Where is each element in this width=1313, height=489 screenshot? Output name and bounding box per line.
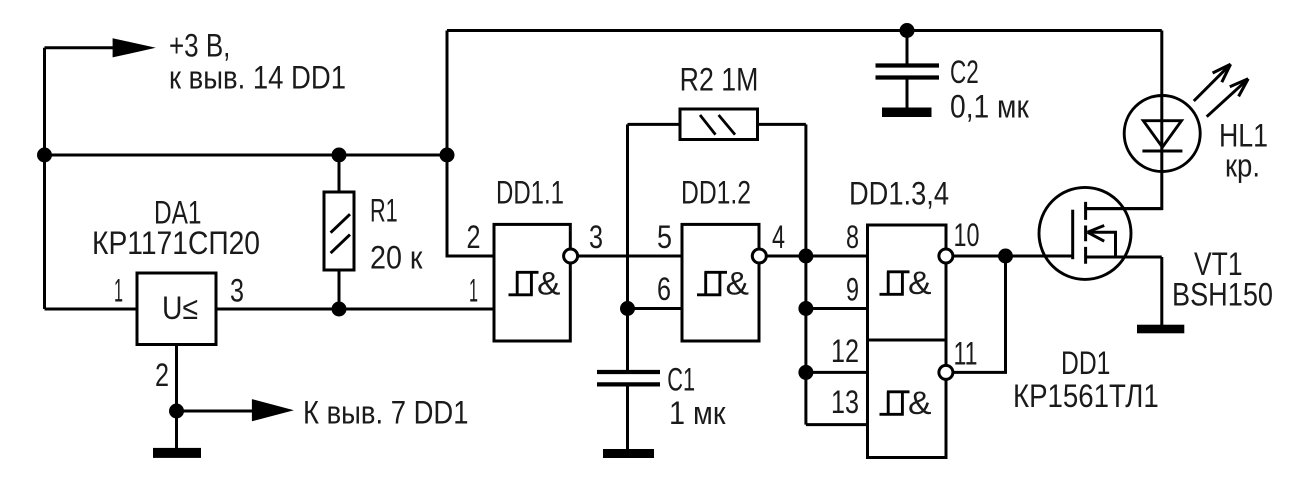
svg-text:кр.: кр. — [1225, 148, 1260, 184]
power arrow +3 V — [113, 38, 156, 57]
ground under C1 — [603, 449, 654, 458]
wire to K vyv.7 arrow — [177, 410, 256, 413]
svg-text:2: 2 — [155, 357, 169, 393]
node junction at 627.5,308.5 — [620, 301, 635, 316]
wire DA1 pin 3 to DD1.1 pin 1 — [216, 308, 494, 311]
svg-text:к выв. 14 DD1: к выв. 14 DD1 — [169, 60, 346, 96]
inverter bubble DD1.4 output — [939, 365, 953, 379]
svg-text:DD1.3,4: DD1.3,4 — [849, 176, 949, 212]
wire +3V horizontal to power arrow — [45, 46, 117, 49]
svg-text:1: 1 — [114, 273, 123, 309]
resistor R1 body — [338, 155, 341, 309]
node junction at 805.9,256 — [798, 249, 813, 264]
svg-text:20 к: 20 к — [370, 239, 423, 275]
svg-text:2: 2 — [467, 219, 481, 255]
svg-text:КР1561ТЛ1: КР1561ТЛ1 — [1013, 378, 1159, 414]
resistor R2 body — [680, 109, 758, 140]
node junction at 1005.5,256 — [998, 249, 1013, 264]
svg-text:R2 1M: R2 1M — [680, 62, 759, 98]
gate DD1.2 — [682, 224, 759, 341]
svg-text:8: 8 — [846, 219, 859, 255]
svg-text:BSH150: BSH150 — [1172, 276, 1273, 312]
svg-text:11: 11 — [954, 336, 978, 372]
svg-text:3: 3 — [230, 273, 244, 309]
svg-text:9: 9 — [846, 272, 859, 308]
transistor VT1 MOSFET — [1039, 187, 1131, 279]
node junction at 339,155 (R1 top) — [332, 148, 347, 163]
wire vertical x=447 from top rail to DD1.1 pin 2 — [447, 31, 494, 257]
svg-text:12: 12 — [831, 333, 859, 369]
ground under C2 — [882, 108, 932, 118]
arrow K vyv. 7 DD1 — [252, 399, 294, 421]
node junction at 44.5,155 — [37, 148, 52, 163]
wire feedback bus vertical x=805.9 — [804, 124, 807, 424]
IC DA1 voltage detector box — [137, 273, 216, 345]
wire LED branch vertical x=1161.8 — [1086, 31, 1162, 209]
svg-text:10: 10 — [954, 217, 980, 253]
svg-text:К выв. 7 DD1: К выв. 7 DD1 — [303, 394, 469, 430]
wire DD1.2 pin 6 from C1 node — [628, 307, 683, 310]
svg-text:5: 5 — [657, 219, 672, 255]
wire R2 left — [628, 123, 681, 126]
capacitor C2 — [906, 31, 909, 64]
svg-text:1: 1 — [469, 273, 478, 309]
svg-text:C2: C2 — [950, 54, 979, 90]
svg-text:U≤: U≤ — [162, 290, 198, 326]
svg-text:1 мк: 1 мк — [669, 395, 726, 431]
gate DD1.1 — [494, 224, 570, 341]
svg-text:&: & — [726, 266, 750, 302]
svg-text:DD1.1: DD1.1 — [496, 174, 564, 210]
ground under DA1 — [153, 448, 201, 458]
wire pin 10 to gate of VT1 — [953, 255, 1073, 258]
wire DA1 pin 2 down to ground — [175, 345, 178, 449]
wire top rail y=30.5 — [447, 29, 1162, 32]
svg-text:&: & — [908, 385, 932, 421]
svg-text:3: 3 — [589, 219, 603, 255]
inverter bubble DD1.2 output — [752, 249, 766, 263]
node junction at 176.5,411 — [169, 404, 184, 419]
wire pin 9 — [806, 307, 868, 310]
node junction at 447,155 — [440, 148, 455, 163]
svg-text:4: 4 — [772, 219, 785, 255]
svg-text:КР1171СП20: КР1171СП20 — [92, 225, 260, 261]
node junction at 907,30.5 — [900, 23, 915, 38]
wire R2/C1 vertical x=627.5 — [626, 124, 629, 371]
node junction at 805.9,308.5 — [798, 301, 813, 316]
wire pin 11 up to node — [953, 256, 1006, 372]
wire R2 right — [758, 123, 806, 126]
svg-text:&: & — [908, 265, 932, 301]
svg-text:0,1 мк: 0,1 мк — [950, 88, 1030, 124]
LED HL1 — [1124, 96, 1200, 172]
svg-text:6: 6 — [657, 271, 671, 307]
svg-text:DD1: DD1 — [1061, 345, 1110, 381]
gate DD1.4 — [868, 340, 947, 458]
svg-text:DD1.2: DD1.2 — [681, 174, 751, 210]
wire pin 13 — [806, 423, 868, 426]
svg-text:&: & — [537, 266, 561, 302]
svg-text:+3 В,: +3 В, — [169, 28, 230, 64]
wire DA1 pin 1 — [45, 308, 138, 311]
wire DD1.1 out to DD1.2 pin 5 — [578, 255, 682, 258]
gate DD1.3 — [868, 225, 947, 340]
ground under VT1 — [1137, 325, 1184, 334]
wire DD1.2 out to DD1.3 pin 8 — [766, 255, 867, 258]
capacitor C1 — [597, 372, 660, 384]
wire supply rail y=155 — [45, 154, 448, 157]
node junction at 339,309 (R1 bottom) — [332, 302, 347, 317]
svg-text:R1: R1 — [370, 192, 398, 228]
svg-text:C1: C1 — [667, 361, 695, 397]
wire VT1 source to ground — [1160, 257, 1163, 325]
svg-text:13: 13 — [831, 384, 859, 420]
wire pin 12 — [806, 371, 868, 374]
node junction at 805.9,372.4 — [798, 365, 813, 380]
inverter bubble DD1.1 output — [564, 249, 578, 263]
inverter bubble DD1.3 output — [939, 249, 953, 263]
wire +3V vertical from arrow corner down to DA1 pin 1 — [43, 48, 46, 309]
